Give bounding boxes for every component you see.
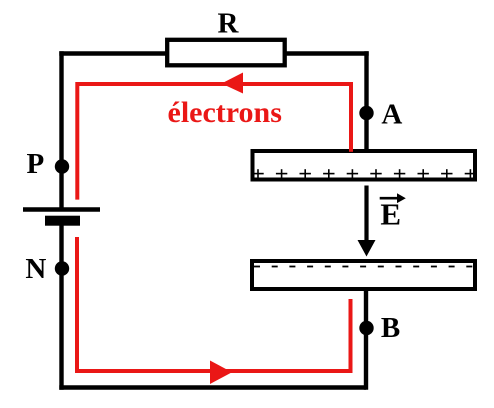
svg-text:A: A [381, 99, 402, 131]
svg-text:E: E [380, 197, 401, 232]
svg-text:B: B [381, 312, 400, 344]
svg-text:P: P [27, 148, 45, 180]
svg-text:R: R [218, 7, 240, 39]
svg-text:électrons: électrons [168, 96, 282, 129]
svg-text:N: N [25, 253, 46, 285]
